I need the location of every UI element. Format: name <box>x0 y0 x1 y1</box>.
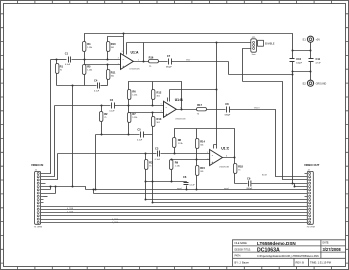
junction riser pin6 <box>50 186 52 188</box>
turret E1 +5V <box>303 36 321 42</box>
junction channel C row R9 <box>171 181 173 183</box>
wire E1 lead down <box>310 43 312 59</box>
wire bus line pin15 <box>44 219 308 221</box>
border ruler ticks right <box>346 14 349 263</box>
svg-text:LT6559CGN: LT6559CGN <box>175 119 186 121</box>
svg-text:C7: C7 <box>167 54 171 58</box>
svg-text:VID2: VID2 <box>186 60 190 62</box>
svg-text:R1: R1 <box>60 64 64 68</box>
svg-text:C8: C8 <box>225 102 229 106</box>
wire U1:A output to enable-area vertical <box>143 43 145 62</box>
svg-text:1.13k: 1.13k <box>178 143 183 145</box>
wire C9 bottom to J2 pin 4 <box>235 183 308 185</box>
junction J2 pin5 ground tap upper <box>292 183 294 185</box>
svg-text:R7: R7 <box>132 112 136 116</box>
svg-text:0.1uF: 0.1uF <box>65 64 71 66</box>
wire U1:C feedback loop R8 top R14 top to output <box>175 129 235 158</box>
junction channel C row R3 <box>145 181 147 183</box>
svg-text:BY: J. Bauer: BY: J. Bauer <box>235 260 250 264</box>
op-amp U1:C <box>207 146 230 168</box>
wire U1:C output to R18 <box>223 158 235 164</box>
svg-text:C10: C10 <box>296 57 301 61</box>
junction R13 top <box>152 112 154 114</box>
svg-text:3/27/2008: 3/27/2008 <box>323 247 342 252</box>
wire R5 leads <box>84 60 86 86</box>
svg-text:C1: C1 <box>65 51 69 55</box>
wire channel A non-inverting input line <box>85 64 121 66</box>
svg-text:0.1uF: 0.1uF <box>109 111 115 113</box>
junction ground bus R15 drop <box>196 189 198 191</box>
svg-text:1.13k: 1.13k <box>132 95 137 97</box>
wire J1 pin stubs <box>41 174 46 223</box>
wire U1:B output through R17 C8 to J2 pin 3 <box>177 110 308 177</box>
resistor R1 <box>56 64 59 74</box>
wire channel C ground row <box>146 181 187 183</box>
junction U1:A output node <box>143 61 145 63</box>
svg-text:C9: C9 <box>247 177 251 181</box>
capacitor C5 <box>141 132 144 138</box>
wire +5V top rail from R4 top across to right side <box>85 34 293 59</box>
svg-text:R4: R4 <box>87 42 91 46</box>
svg-text:0.1uF: 0.1uF <box>190 184 196 186</box>
wire ground bus step from J1 pin 5 <box>44 187 86 190</box>
wire ground drop from channel A row to bottom bus <box>72 86 74 187</box>
wire R10 bottom lead <box>107 52 109 60</box>
svg-text:U1:B: U1:B <box>175 98 183 102</box>
wire channel B input riser from J1 pin 2 <box>44 106 55 177</box>
svg-text:R14: R14 <box>200 139 205 143</box>
junction E2 column ground link <box>310 71 312 73</box>
wire U1:C second top pin stub <box>214 145 217 149</box>
wire output-area drop at C8 column <box>229 62 292 75</box>
wire ground bus line pin7 from second step <box>94 190 308 194</box>
title block outline <box>233 240 346 267</box>
wire bus line pin12 <box>44 209 308 211</box>
junction R15 top <box>196 159 198 161</box>
wire U1:A enable pin stub <box>126 43 128 55</box>
wire C6 leads <box>186 182 188 190</box>
svg-text:680pF: 680pF <box>247 188 253 190</box>
svg-text:2mm: 2mm <box>252 54 256 56</box>
wire R12 bottom lead <box>152 100 154 106</box>
junction ground bus C6 drop <box>186 189 188 191</box>
wire R15 leads and drop <box>196 160 198 190</box>
svg-text:R5: R5 <box>87 65 91 69</box>
svg-text:E1: E1 <box>303 38 307 42</box>
svg-text:ENABLE: ENABLE <box>265 43 275 46</box>
resistor R4 <box>83 42 86 52</box>
wire JP1 pin3 to lower ground link <box>243 49 308 180</box>
svg-text:2: 2 <box>118 63 119 65</box>
resistor R5 <box>83 65 86 75</box>
wire R6 bottom lead <box>128 100 130 106</box>
svg-text:VIDEO OUT: VIDEO OUT <box>304 163 320 167</box>
resistor R10 <box>107 42 110 52</box>
svg-text:1.13k: 1.13k <box>87 47 92 49</box>
wire C11 bottom lead <box>310 62 312 72</box>
junction rail to E1 link right <box>310 50 312 52</box>
svg-text:1.13k: 1.13k <box>132 117 137 119</box>
junction second step on pin6 line <box>93 189 95 191</box>
wire J2 pin stubs <box>305 174 308 197</box>
wire U1:B feedback loop R6 top R12 top to output <box>129 82 182 110</box>
wire channel C input riser from J1 pin 3 <box>44 154 58 180</box>
wire J1 pin8 stub <box>44 196 48 198</box>
resistor R16 <box>149 60 159 63</box>
svg-text:680pF: 680pF <box>166 67 172 69</box>
junction J2 pin5 ground tap lower <box>294 186 296 188</box>
svg-text:R13: R13 <box>157 117 162 121</box>
junction bus pin10 start <box>152 202 154 204</box>
wire R11 leads <box>107 65 109 86</box>
junction riser pin7 <box>55 186 57 188</box>
wire bus line pin14 <box>44 215 308 217</box>
svg-text:6: 6 <box>226 156 227 158</box>
svg-text:R9: R9 <box>175 160 179 164</box>
svg-text:U1:A: U1:A <box>131 51 139 55</box>
title block date column divider <box>320 240 322 258</box>
capacitor C10 <box>290 59 295 62</box>
wire channel C non-inverting input line <box>172 159 210 161</box>
title block row line 1 <box>233 245 346 247</box>
wire C10 bottom lead and ground drop to J2 pin 5 <box>293 62 308 187</box>
svg-text:75 OHM: 75 OHM <box>34 227 42 229</box>
border ruler ticks left <box>1 14 4 263</box>
junction R2 top <box>101 105 103 107</box>
capacitor C8 <box>227 107 230 113</box>
junction ground row drop <box>72 85 74 87</box>
junction R4 R5 node <box>84 59 86 61</box>
wire R3 top lead <box>145 154 147 160</box>
wire R1 top lead <box>56 60 58 64</box>
wire R14 bottom lead crossing minus line <box>196 149 198 160</box>
junction C10 column upper ground link <box>292 71 294 73</box>
junction U1:B V+ tap <box>216 89 218 91</box>
wire R8 bottom lead <box>174 148 176 154</box>
wire R2 top lead <box>101 106 103 112</box>
svg-text:75 OHM: 75 OHM <box>307 227 315 229</box>
svg-text:3: 3 <box>118 58 119 60</box>
wire R2 bottom drop to ground bus <box>101 122 103 135</box>
wire ground bus feed to J2 pin6 <box>304 189 308 191</box>
svg-text:6: 6 <box>161 111 162 113</box>
wire bus line pin9 from R3 drop <box>146 199 308 201</box>
svg-text:R18: R18 <box>238 164 243 168</box>
capacitor C4 <box>98 83 100 89</box>
svg-text:FILE NAME:: FILE NAME: <box>235 242 248 245</box>
wire bus line pin11 <box>44 206 308 208</box>
svg-text:DATE:: DATE: <box>323 242 330 245</box>
wire enable line to JP1 pin 1 <box>127 42 251 44</box>
resistor R7 <box>128 113 131 123</box>
svg-text:9: 9 <box>207 152 208 154</box>
wire channel A inverting input line right part <box>72 59 121 61</box>
wire R1 bottom lead to ground row <box>56 74 58 86</box>
junction R9 top <box>171 159 173 161</box>
resistor R15 <box>196 166 199 176</box>
capacitor C1 <box>69 57 71 63</box>
junction B row west drop on ground bus <box>95 189 97 191</box>
junction U1:B output node <box>181 109 183 111</box>
svg-text:-: - <box>166 106 167 110</box>
title block row line 3 <box>233 257 346 259</box>
svg-text:U1:C: U1:C <box>221 146 229 150</box>
wire channel A ground row right of C4 <box>101 85 108 87</box>
junction R1 top <box>56 59 58 61</box>
svg-text:C:\Projects\Applications\DC106: C:\Projects\Applications\DC1063_LT6559\L… <box>257 255 319 258</box>
junction enable line / vertical <box>216 42 218 44</box>
svg-text:TIME: 1:31:19 PM: TIME: 1:31:19 PM <box>310 260 331 264</box>
wire bus line pin10 from channel B ground drop <box>153 202 308 204</box>
junction R12 bottom <box>152 105 154 107</box>
junction R6 bottom <box>128 105 130 107</box>
resistor R17 <box>197 108 207 111</box>
svg-text:-: - <box>212 154 213 158</box>
connector J2 VIDEO OUT <box>304 163 320 229</box>
wire R14 top lead <box>196 129 198 139</box>
svg-text:-: - <box>123 58 124 62</box>
wire channel B inverting input line left part <box>55 105 111 107</box>
svg-text:0.1uF: 0.1uF <box>94 90 100 92</box>
wire +5V drop to U1:A V+ pin <box>123 34 125 55</box>
wire R18 bottom to C9 <box>234 174 236 184</box>
svg-text:0.1uF: 0.1uF <box>155 159 161 161</box>
svg-text:8: 8 <box>122 51 123 53</box>
wire J1 pin6 link and riser to pin5 line <box>44 187 51 190</box>
resistor R8 <box>173 138 176 148</box>
junction rail to E1 link left <box>292 50 294 52</box>
junction R3 top <box>145 153 147 155</box>
resistor R9 <box>170 160 173 170</box>
connector J1 VIDEO IN <box>31 163 43 229</box>
wire ground bus line pin6 level <box>86 189 304 191</box>
svg-text:4.7uF: 4.7uF <box>316 62 322 64</box>
svg-text:R11: R11 <box>111 70 116 74</box>
svg-text:GROUND: GROUND <box>316 82 327 85</box>
svg-text:DC1063A: DC1063A <box>257 247 280 253</box>
junction channel B drop crossing row <box>152 181 154 183</box>
resistor R2 <box>100 112 103 122</box>
svg-text:1: 1 <box>138 60 139 62</box>
svg-text:R12: R12 <box>157 90 162 94</box>
svg-text:10: 10 <box>207 159 209 161</box>
resistor R6 <box>128 90 131 100</box>
wire channel B row west drop to ground bus <box>95 135 97 190</box>
capacitor C2 <box>112 103 115 109</box>
wire bus line pin13 <box>44 212 308 214</box>
svg-text:6_75IN: 6_75IN <box>112 219 119 221</box>
svg-text:R2: R2 <box>104 112 108 116</box>
wire channel B inverting input line right part <box>115 105 164 107</box>
title block bottom row dividers <box>294 258 309 266</box>
resistor R18 <box>234 164 237 174</box>
svg-text:VIDEO IN: VIDEO IN <box>31 163 43 167</box>
wire R12 top lead <box>152 82 154 90</box>
wire bus line pin16 <box>44 222 308 224</box>
svg-text:680pF: 680pF <box>225 115 231 117</box>
svg-text:DESIGN TITLE:: DESIGN TITLE: <box>235 249 252 251</box>
wire channel C inverting input line right part <box>161 153 210 155</box>
svg-text:LT6559CGN: LT6559CGN <box>219 167 230 169</box>
svg-text:100pF: 100pF <box>296 62 302 64</box>
wire channel B ground drop to bus pin10 line <box>152 135 154 203</box>
title block row line 2 <box>233 251 346 253</box>
junction R7 bottom on row <box>128 134 130 136</box>
svg-text:C5: C5 <box>137 128 141 132</box>
svg-text:R10: R10 <box>111 42 116 46</box>
resistor R12 <box>152 90 155 100</box>
wire R10 top to +5V rail <box>108 37 124 42</box>
junction R10 bottom <box>107 59 109 61</box>
svg-text:0.1uF: 0.1uF <box>137 140 143 142</box>
svg-text:R15: R15 <box>200 166 205 170</box>
wire R13 leads <box>152 113 154 135</box>
svg-text:C6: C6 <box>183 175 187 179</box>
junction R2 bottom on row <box>101 134 103 136</box>
resistor R3 <box>145 160 148 170</box>
svg-text:PATH:: PATH: <box>235 255 242 258</box>
border ruler ticks bottom <box>17 267 331 270</box>
svg-text:C11: C11 <box>316 57 321 61</box>
svg-text:BLUE: BLUE <box>262 174 268 176</box>
svg-text:LT6559demo.DSN: LT6559demo.DSN <box>257 241 296 246</box>
capacitor C3 <box>158 151 160 157</box>
junction bus pin9 start <box>145 199 147 201</box>
resistor R11 <box>107 70 110 80</box>
svg-text:agnd: agnd <box>224 188 228 190</box>
jumper JP1 ENABLE <box>251 37 275 56</box>
capacitor C9 <box>249 181 251 187</box>
wire R3 bottom drop through row to bus pin9 line <box>145 170 147 200</box>
wire ground link line to E2 column <box>293 72 311 81</box>
wire channel A ground row left of C4 <box>57 85 97 87</box>
svg-text:VID2O: VID2O <box>254 107 260 109</box>
wire J1 pin7 link and riser to pin5 line <box>44 187 56 194</box>
junction C10 column lower ground link <box>292 74 294 76</box>
svg-text:1.13k: 1.13k <box>87 70 92 72</box>
svg-text:5_75IN: 5_75IN <box>67 211 74 213</box>
svg-text:7_75IN: 7_75IN <box>112 222 119 224</box>
junction ground bus step <box>72 186 74 188</box>
svg-text:E2: E2 <box>303 82 307 86</box>
svg-text:REV: B: REV: B <box>296 260 305 264</box>
svg-text:4_75IN: 4_75IN <box>67 208 74 210</box>
wire +5V link rail to E1 column <box>293 50 311 52</box>
wire channel C inverting input line left part <box>58 153 157 155</box>
op-amp U1:B <box>161 98 186 120</box>
wire R4 bottom lead <box>84 52 86 60</box>
wire channel A inverting input line left part <box>51 59 67 61</box>
junction R11 top <box>107 64 109 66</box>
svg-text:R8: R8 <box>178 138 182 142</box>
junction R8 bottom <box>174 153 176 155</box>
svg-text:R17: R17 <box>197 103 202 107</box>
svg-text:C2: C2 <box>110 98 114 102</box>
wire enable/power vertical to U1:C <box>216 43 218 149</box>
svg-text:C4: C4 <box>94 79 98 83</box>
wire R9 leads and drop <box>171 160 173 182</box>
svg-text:+5V: +5V <box>316 38 321 41</box>
wire channel B ground row with C5 <box>96 134 153 136</box>
wire channel B non-inverting input line <box>129 112 164 114</box>
resistor R14 <box>196 139 199 149</box>
wire channel A input riser from J1 pin 1 <box>44 60 51 174</box>
resistor R13 <box>152 117 155 127</box>
capacitor C11 <box>309 59 314 62</box>
svg-text:agnd: agnd <box>177 188 181 190</box>
svg-text:5: 5 <box>161 104 162 106</box>
wire R7 leads <box>128 106 130 135</box>
op-amp U1:A <box>118 51 140 71</box>
wire U1:B V+ branch <box>168 90 217 102</box>
capacitor C6 <box>184 183 189 185</box>
wire U1:A output through R16 C7 to J2 pin 2 <box>134 61 229 63</box>
svg-text:C3: C3 <box>155 146 159 150</box>
junction +5V rail / U1:A V+ <box>123 33 125 35</box>
capacitor C7 <box>169 59 172 65</box>
svg-text:R6: R6 <box>132 90 136 94</box>
border ruler ticks top <box>17 1 331 4</box>
junction U1:C output node <box>234 157 236 159</box>
turret E2 GROUND <box>303 80 327 86</box>
svg-text:LT6559CGN: LT6559CGN <box>130 68 141 70</box>
svg-text:R16: R16 <box>149 55 154 59</box>
svg-text:1.13k: 1.13k <box>175 165 180 167</box>
svg-text:R3: R3 <box>149 160 153 164</box>
